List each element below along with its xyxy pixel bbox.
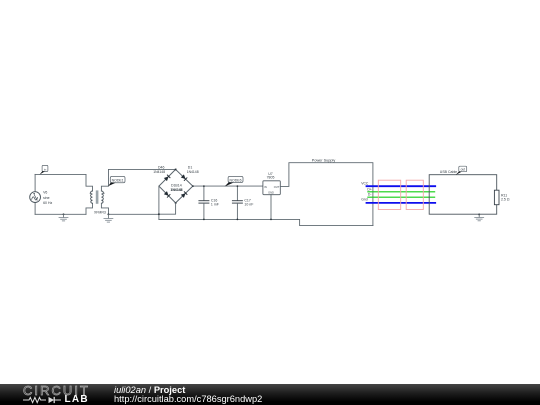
diode D1 (top-right edge): [181, 174, 187, 180]
node junction bottom: [158, 213, 160, 215]
node C16 top: [203, 185, 205, 187]
flag NODE6: [225, 176, 243, 186]
wire DC+ rail: [193, 185, 263, 187]
capacitor C17: [232, 186, 242, 219]
label D1B14 1N4148 (overlapping labels): [170, 184, 182, 192]
svg-text:in: in: [44, 167, 47, 171]
node C16 bottom: [203, 219, 205, 221]
wire bridge bottom vertex drop: [159, 203, 176, 214]
label C17 10 nF: [244, 199, 253, 207]
credit line: [114, 385, 185, 395]
wire U7 OUT to power supply: [280, 163, 373, 226]
wire primary bottom lead: [86, 203, 93, 214]
wire bridge left vertex drop: [158, 186, 160, 219]
wire D- (green): [368, 196, 435, 198]
wire Gnd (blue): [367, 202, 436, 204]
voltage regulator U7 7805: [263, 181, 280, 195]
svg-text:1 mF: 1 mF: [211, 203, 219, 207]
wire ground rail: [159, 219, 373, 225]
wire U7 GND lead: [270, 195, 272, 220]
svg-text:XFMR3: XFMR3: [94, 210, 106, 214]
svg-text:1N4148: 1N4148: [171, 188, 183, 192]
wire source top: [35, 173, 86, 175]
flag in: [40, 165, 48, 174]
diode (bottom-right edge): [181, 192, 187, 198]
svg-text:D1: D1: [188, 166, 193, 170]
svg-text:D46: D46: [158, 166, 164, 170]
svg-text:sine: sine: [43, 196, 49, 200]
label D46 1N4148: [153, 166, 165, 175]
logo resistor-diode glyph: [23, 396, 65, 404]
svg-text:Power Supply: Power Supply: [312, 158, 336, 162]
transformer XFMR3: [90, 190, 105, 203]
svg-text:Gnd: Gnd: [361, 198, 368, 202]
diode (left-bottom edge): [164, 191, 170, 197]
svg-text:USB Cable: USB Cable: [440, 170, 457, 174]
wire source bottom: [35, 213, 86, 215]
label C16 1 mF: [211, 199, 219, 207]
flag out: [456, 166, 467, 175]
node C17 top: [237, 185, 239, 187]
label U7 7805: [267, 172, 275, 180]
wire secondary bottom lead: [101, 203, 108, 214]
wire VCC (blue): [367, 185, 436, 187]
svg-text:NODE1: NODE1: [112, 179, 124, 183]
capacitor C16: [199, 186, 209, 219]
CircuitLab logo wordmark: [23, 385, 93, 397]
voltage source V6: [30, 192, 41, 203]
diode bridge outline: [159, 169, 193, 203]
diode D46 (left-top edge): [164, 175, 170, 181]
svg-text:D1B14: D1B14: [171, 184, 182, 188]
wire source left bottom: [34, 203, 36, 215]
ground G3: [475, 213, 484, 220]
highlight rect 2: [406, 180, 423, 209]
resistor R11: [494, 190, 499, 205]
url line: [114, 394, 262, 404]
svg-text:NODE6: NODE6: [229, 179, 241, 183]
svg-text:D-: D-: [368, 193, 372, 197]
svg-text:V6: V6: [43, 191, 47, 195]
label R11 2.5 ohm: [501, 194, 510, 202]
svg-text:2.5 Ω: 2.5 Ω: [501, 197, 510, 201]
svg-text:1N4148: 1N4148: [153, 170, 165, 174]
wire source left top: [34, 174, 36, 191]
svg-text:D+: D+: [367, 187, 371, 191]
wire D+ (green): [368, 191, 435, 193]
bottom brand bar: [0, 384, 540, 405]
svg-text:R11: R11: [501, 194, 507, 198]
wire primary top lead: [86, 174, 93, 191]
logo LAB text: [65, 394, 89, 405]
svg-text:60 Hz: 60 Hz: [43, 201, 52, 205]
node C17 bottom: [237, 219, 239, 221]
wire secondary to bridge top: [109, 168, 176, 170]
wire secondary bottom to bridge: [109, 213, 159, 215]
svg-text:C16: C16: [211, 199, 217, 203]
flag NODE1: [108, 176, 125, 186]
ground G2: [104, 213, 113, 222]
svg-text:out: out: [461, 168, 466, 172]
ground G1: [59, 213, 68, 220]
wire secondary top lead: [101, 169, 108, 191]
svg-text:7805: 7805: [267, 175, 275, 179]
node U7 gnd: [270, 219, 272, 221]
label V6 sine 60 Hz: [43, 191, 52, 206]
svg-text:10 nF: 10 nF: [244, 203, 253, 207]
highlight rect 1: [378, 180, 400, 209]
label D1 1N4148: [187, 166, 199, 175]
USB cable box: [429, 175, 497, 215]
svg-text:VCC: VCC: [361, 181, 369, 185]
svg-text:C17: C17: [244, 199, 250, 203]
node dots bridge vertices: [175, 169, 194, 204]
svg-text:1N4148: 1N4148: [187, 170, 199, 174]
